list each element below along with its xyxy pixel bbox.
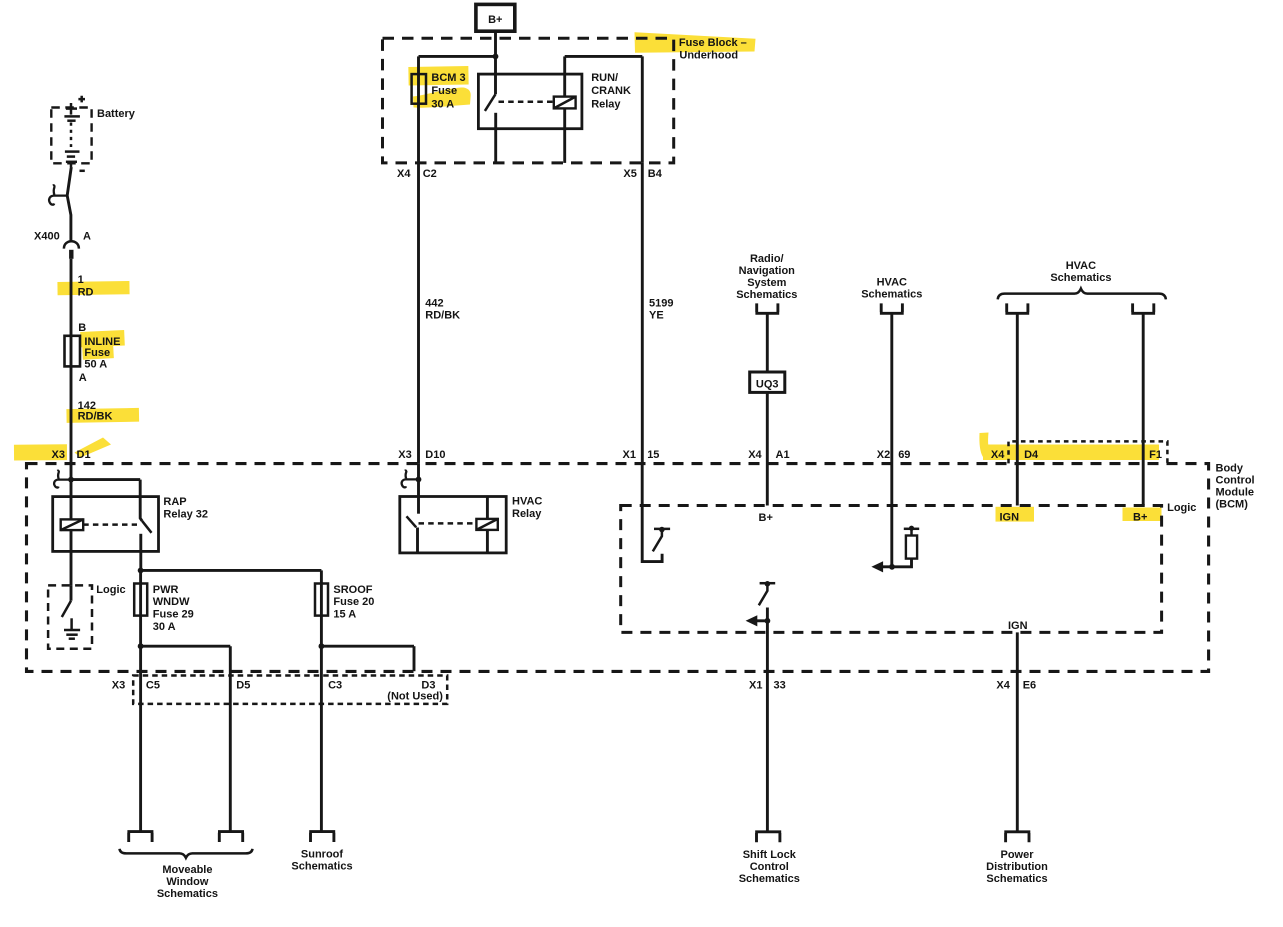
logic switch 2 (759, 581, 775, 605)
svg-text:Underhood: Underhood (679, 50, 738, 62)
fuse PWR WNDW Fuse 29 30A (134, 570, 147, 646)
svg-text:Fuse: Fuse (431, 85, 457, 97)
svg-text:RD/BK: RD/BK (425, 310, 460, 322)
svg-text:X4: X4 (397, 168, 411, 180)
pins X4 E6 (996, 679, 1036, 691)
relay RUN/CRANK linkage (499, 101, 554, 104)
battery negative terminal - (80, 170, 85, 173)
brace HVAC schematics (998, 289, 1166, 300)
pins X3 D1 (52, 449, 91, 461)
svg-text:B+: B+ (759, 512, 773, 524)
svg-text:X2: X2 (877, 449, 890, 461)
junction fuse bus (138, 568, 144, 574)
connector to HVAC schematics D4 (1005, 303, 1029, 313)
wire C3 down (320, 646, 323, 831)
label Power Distribution Schematics (986, 849, 1048, 885)
label BCM 3 Fuse 30 A (431, 72, 465, 110)
svg-text:D1: D1 (77, 449, 91, 461)
logic driver switch (62, 585, 71, 617)
connector to moveable window schematics C5 (127, 832, 153, 842)
svg-text:15: 15 (647, 449, 659, 461)
svg-text:(Not Used): (Not Used) (387, 691, 443, 703)
svg-text:Navigation: Navigation (739, 265, 796, 277)
label Sunroof Schematics (291, 849, 352, 873)
wire 5199 YE (641, 163, 644, 464)
svg-text:Sunroof: Sunroof (301, 849, 343, 861)
fuse SROOF Fuse 20 15A (315, 570, 328, 646)
wire 1 RD (70, 259, 73, 336)
svg-text:Battery: Battery (97, 108, 136, 120)
svg-text:RAP: RAP (163, 496, 186, 508)
label INLINE Fuse 50 A (84, 336, 120, 371)
highlight: Fuse Block label (635, 32, 756, 53)
svg-text:IGN: IGN (1008, 620, 1028, 632)
fuse BCM 3 30A (412, 56, 426, 162)
svg-text:Module: Module (1216, 486, 1255, 498)
svg-text:System: System (747, 277, 786, 289)
label 5199 YE (649, 298, 673, 322)
svg-text:HVAC: HVAC (1066, 260, 1096, 272)
arrow into shift lock output (746, 615, 768, 626)
svg-text:Fuse 29: Fuse 29 (153, 609, 194, 621)
logic box left (48, 585, 92, 648)
wire A1 lower (766, 392, 769, 505)
svg-text:X4: X4 (996, 679, 1010, 691)
svg-text:30 A: 30 A (431, 98, 454, 110)
wire B4 drop (641, 56, 644, 162)
wire A1 upper (766, 313, 769, 372)
wire 142 RD/BK (70, 366, 73, 463)
svg-text:X400: X400 (34, 231, 60, 243)
junction arrow 33 (765, 618, 771, 624)
connector row X4 D4 F1 dotted box (1009, 441, 1168, 463)
svg-text:5199: 5199 (649, 298, 673, 310)
label Radio/Navigation System Schematics (736, 253, 797, 301)
connector X400 pin A (34, 231, 91, 259)
svg-text:Control: Control (750, 861, 789, 873)
svg-text:50 A: 50 A (84, 359, 107, 371)
wire B+ to fuse block (494, 31, 497, 56)
svg-text:HVAC: HVAC (512, 496, 542, 508)
label 442 RD/BK (425, 298, 460, 322)
splice clip at RAP feed (54, 471, 71, 488)
wire 442 RD/BK (417, 163, 420, 464)
svg-text:RD: RD (78, 286, 94, 298)
relay RUN/CRANK coil (554, 56, 576, 162)
relay HVAC coil (476, 497, 497, 553)
pins X3 D10 (398, 449, 445, 461)
option box UQ3 (750, 372, 785, 392)
label Fuse Block - Underhood (679, 37, 747, 62)
wire battery negative lead (67, 167, 71, 241)
relay RAP switch (140, 480, 151, 571)
connector row X3 C5 D5 C3 D3 (133, 676, 447, 704)
svg-text:Relay 32: Relay 32 (163, 508, 208, 520)
svg-text:IGN: IGN (1000, 512, 1020, 524)
wire branch to D3 (321, 645, 414, 648)
pins X3 C5 D5 C3 D3 (Not Used) (112, 679, 443, 702)
connector to sunroof schematics C3 (309, 832, 335, 842)
junction C3/D3 (319, 643, 325, 649)
svg-text:BCM 3: BCM 3 (431, 72, 465, 84)
label 1 RD (78, 274, 94, 298)
svg-text:B: B (78, 322, 86, 334)
svg-text:Fuse: Fuse (84, 347, 110, 359)
highlight: INLINE Fuse 50 A (80, 330, 125, 347)
svg-text:Radio/: Radio/ (750, 253, 784, 265)
connector to HVAC schematics (X2) (880, 303, 904, 313)
svg-text:Control: Control (1216, 474, 1255, 486)
svg-text:D5: D5 (236, 679, 250, 691)
wire D1 into BCM (70, 464, 73, 520)
svg-text:33: 33 (774, 679, 786, 691)
highlight: IGN (996, 507, 1035, 522)
junction 69 input (889, 564, 895, 570)
battery enclosure (51, 108, 91, 164)
svg-text:Fuse 20: Fuse 20 (333, 596, 374, 608)
label RAP Relay 32 (163, 496, 208, 520)
highlight: BCM 3 Fuse 30 A (408, 66, 468, 86)
relay RAP Relay 32 box (53, 497, 159, 552)
svg-text:Schematics: Schematics (1050, 272, 1111, 284)
wire 15 into logic with contact (642, 464, 662, 562)
svg-text:B+: B+ (1133, 512, 1147, 524)
label PWR WNDW Fuse 29 30 A (153, 584, 194, 633)
svg-text:69: 69 (898, 449, 910, 461)
label Shift Lock Control Schematics (739, 849, 800, 885)
fuse INLINE 50A (65, 336, 81, 367)
connector to HVAC schematics F1 (1131, 303, 1155, 313)
svg-text:30 A: 30 A (153, 621, 176, 633)
brace moveable window (120, 849, 253, 858)
svg-text:YE: YE (649, 310, 664, 322)
svg-text:Schematics: Schematics (291, 861, 352, 873)
logic switch 1 (653, 527, 670, 552)
svg-text:SROOF: SROOF (333, 584, 372, 596)
svg-text:B+: B+ (488, 14, 502, 26)
svg-text:C3: C3 (328, 679, 342, 691)
svg-text:Relay: Relay (591, 98, 621, 110)
relay HVAC linkage (419, 522, 476, 525)
svg-text:D10: D10 (425, 449, 445, 461)
svg-text:Relay: Relay (512, 508, 542, 520)
svg-text:WNDW: WNDW (153, 596, 190, 608)
svg-text:X4: X4 (748, 449, 762, 461)
svg-text:C5: C5 (146, 679, 160, 691)
svg-text:Logic: Logic (96, 584, 125, 596)
svg-text:Schematics: Schematics (739, 873, 800, 885)
relay HVAC switch (407, 464, 419, 553)
svg-text:1: 1 (78, 274, 84, 286)
svg-text:X1: X1 (623, 449, 636, 461)
svg-text:Schematics: Schematics (861, 288, 922, 300)
wire fuse bus (141, 569, 322, 572)
highlight: 142 RD/BK (66, 408, 139, 423)
wire B+ bus left (419, 55, 496, 58)
svg-text:X1: X1 (749, 679, 762, 691)
svg-text:X5: X5 (623, 168, 636, 180)
svg-text:Distribution: Distribution (986, 861, 1048, 873)
svg-text:INLINE: INLINE (84, 336, 120, 348)
wire D4 (1016, 313, 1019, 505)
svg-text:Body: Body (1216, 462, 1244, 474)
highlight: X3 D1 (14, 444, 67, 460)
resistor pull-up (892, 526, 919, 567)
wire D5 down (229, 646, 232, 831)
svg-text:A: A (83, 231, 91, 243)
fuse block - underhood enclosure (383, 38, 674, 163)
splice clip at HVAC feed (402, 471, 419, 488)
relay RAP coil (61, 519, 83, 585)
svg-text:Moveable: Moveable (162, 864, 212, 876)
pins X4 A1 (748, 449, 789, 461)
svg-text:Power: Power (1000, 849, 1034, 861)
wire 69 (890, 313, 893, 567)
label Moveable Window Schematics (157, 864, 218, 900)
label HVAC Schematics (861, 276, 922, 300)
arrow into logic 69 (871, 561, 892, 572)
junction HVAC feed (416, 477, 422, 483)
pins X2 69 (877, 449, 911, 461)
highlight: X4 D4 F1 row (983, 445, 1159, 461)
svg-text:X3: X3 (112, 679, 125, 691)
relay HVAC box (400, 497, 506, 553)
svg-text:Schematics: Schematics (986, 873, 1047, 885)
svg-text:A1: A1 (776, 449, 790, 461)
wire branch to D5 (141, 645, 231, 648)
pins X5 B4 (623, 168, 662, 180)
svg-text:Schematics: Schematics (736, 289, 797, 301)
relay RUN/CRANK switch (485, 56, 496, 162)
svg-text:HVAC: HVAC (877, 276, 907, 288)
wire F1 (1142, 313, 1145, 505)
label RUN/CRANK Relay (591, 72, 631, 110)
svg-text:A: A (79, 372, 87, 384)
svg-text:E6: E6 (1023, 679, 1036, 691)
svg-text:X3: X3 (398, 449, 411, 461)
splice clip on battery lead (49, 185, 68, 204)
pins X1 33 (749, 679, 786, 691)
svg-text:Shift Lock: Shift Lock (743, 849, 797, 861)
connector to shift lock schematics (755, 832, 781, 842)
ground (64, 618, 80, 638)
svg-text:442: 442 (425, 298, 443, 310)
wire 33 output (766, 608, 769, 832)
svg-text:F1: F1 (1149, 449, 1162, 461)
wire E6 IGN output (1016, 632, 1019, 831)
svg-text:Fuse Block –: Fuse Block – (679, 37, 747, 49)
svg-text:CRANK: CRANK (591, 85, 631, 97)
svg-text:B4: B4 (648, 168, 663, 180)
wire C5 down (139, 646, 142, 831)
pins X4 D4 F1 (991, 449, 1162, 461)
svg-text:C2: C2 (423, 168, 437, 180)
body control module enclosure (27, 464, 1209, 672)
svg-text:D3: D3 (421, 679, 435, 691)
pins X1 15 (623, 449, 660, 461)
highlight: 1 RD (57, 281, 129, 295)
connector to power distribution schematics (1004, 832, 1030, 842)
svg-text:PWR: PWR (153, 584, 179, 596)
highlight: B+ (F1) (1123, 508, 1162, 522)
connector to moveable window schematics D5 (218, 832, 244, 842)
junction C5/D5 (138, 643, 144, 649)
junction B+ bus (493, 54, 499, 60)
svg-text:Schematics: Schematics (157, 888, 218, 900)
label 142 RD/BK (78, 400, 113, 422)
junction RAP feed (68, 477, 74, 483)
node B+ battery feed box (476, 4, 515, 31)
svg-text:Window: Window (166, 876, 208, 888)
svg-text:RD/BK: RD/BK (78, 411, 113, 423)
pins X4 C2 (397, 168, 437, 180)
label HVAC Relay (512, 496, 542, 520)
relay RUN/CRANK box (478, 74, 582, 129)
wire branch to RAP switch (71, 478, 140, 481)
logic box right (621, 506, 1162, 633)
wire coil bus to B4 (565, 55, 643, 58)
svg-text:UQ3: UQ3 (756, 379, 779, 391)
label SROOF Fuse 20 15 A (333, 584, 374, 621)
svg-text:D4: D4 (1024, 449, 1039, 461)
svg-text:RUN/: RUN/ (591, 72, 618, 84)
label HVAC Schematics (right) (1050, 260, 1111, 284)
label Body Control Module (BCM) (1216, 462, 1255, 510)
svg-text:15 A: 15 A (333, 609, 356, 621)
battery positive terminal + (78, 96, 85, 103)
relay RAP linkage (83, 523, 137, 526)
svg-text:Logic: Logic (1167, 502, 1196, 514)
svg-text:X4: X4 (991, 449, 1005, 461)
svg-text:(BCM): (BCM) (1216, 498, 1249, 510)
battery B1 cells (64, 103, 80, 167)
connector to radio/navigation schematics (755, 303, 779, 313)
wire D3 stub (not used) (413, 646, 416, 671)
svg-text:X3: X3 (52, 449, 65, 461)
